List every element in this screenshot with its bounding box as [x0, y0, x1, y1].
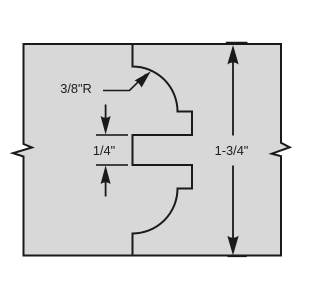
arrow down tip (1-3/4") — [227, 236, 238, 256]
svg-text:1/4": 1/4" — [93, 143, 115, 158]
extension line lower (1/4") — [96, 164, 128, 166]
arrow down (1/4") — [105, 105, 107, 126]
dimension line 1-3/4" upper segment — [232, 62, 234, 136]
svg-text:3/8"R: 3/8"R — [60, 81, 92, 96]
arrow up (1/4") — [105, 175, 107, 197]
joint profile cut line — [133, 44, 193, 256]
dimension line 1-3/4" lower segment — [232, 166, 234, 239]
leader arrowhead — [135, 71, 151, 87]
tick bar top — [226, 42, 248, 44]
extension line upper (1/4") — [96, 134, 128, 136]
svg-text:1-3/4": 1-3/4" — [215, 143, 249, 158]
leader line 3/8"R — [103, 74, 146, 90]
tick bar bottom — [228, 255, 247, 257]
arrow up tip (1-3/4") — [227, 45, 238, 65]
board cross-section with break-line notches — [13, 44, 290, 256]
